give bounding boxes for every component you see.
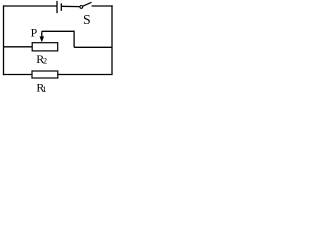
rheostat wiper arrow shaft	[41, 31, 43, 37]
resistor R1 box	[32, 71, 58, 78]
rheostat R2 box	[32, 43, 58, 51]
wire top-left segment	[3, 5, 57, 7]
svg-text:P: P	[31, 26, 38, 40]
svg-text:1: 1	[42, 84, 46, 94]
wire wiper to right side	[74, 46, 112, 48]
rheostat wiper arrowhead	[40, 36, 45, 42]
wire bottom-right segment	[58, 74, 112, 76]
wire battery to switch	[61, 5, 80, 7]
battery B1 long plate	[56, 1, 58, 13]
svg-text:S: S	[83, 12, 91, 27]
wire bottom-left segment	[3, 74, 32, 76]
switch S blade	[83, 2, 92, 6]
switch S contact circle	[80, 6, 83, 9]
wire feed to rheostat	[4, 46, 33, 48]
wire wiper horizontal	[42, 30, 74, 32]
wire wiper vertical	[73, 31, 75, 48]
wire left side vertical	[3, 5, 5, 75]
wire right side vertical	[111, 5, 113, 75]
battery B1 short plate	[60, 3, 62, 11]
wire switch to top-right corner	[92, 5, 113, 7]
svg-text:2: 2	[43, 56, 47, 66]
